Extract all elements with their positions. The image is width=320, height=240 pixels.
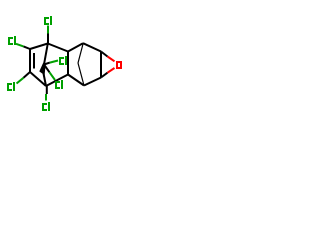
wire C6-O black half — [101, 73, 108, 78]
wire C6-O red half — [108, 68, 115, 73]
wire C9-C5 methano bridge thin — [78, 63, 84, 86]
wire C3-Cl(left-bottom) green half — [17, 78, 24, 84]
wire C1-C8a — [48, 44, 68, 52]
wire C2-Cl(left-top) green half — [16, 44, 24, 47]
wire C10-Cl(mid-top) black half — [44, 63, 50, 65]
wire C8a-C4a — [67, 52, 69, 75]
wire C7-O red half — [108, 57, 115, 62]
wire C10-Cl(mid-bottom) green half — [50, 72, 56, 80]
wire C1-Cl(top) green half — [47, 26, 49, 34]
wire C10-C1 bridge bond — [44, 44, 48, 65]
wire C4-C4a — [46, 75, 68, 87]
wire C6-C7 epoxide edge — [100, 52, 102, 78]
wedge bond C10-C4 — [39, 63, 45, 75]
wire C2-Cl(left-top) black half — [24, 46, 31, 49]
wire C10-C4 bridge bond thin part — [44, 74, 47, 87]
wire C7-O black half — [101, 52, 108, 57]
wire C4a-C5 — [68, 75, 84, 86]
background — [0, 0, 130, 130]
wire C10-Cl(mid-top) green half — [50, 61, 58, 63]
atom label Cl left-top — [8, 36, 16, 45]
wire C8-C7 — [83, 43, 101, 51]
wire C8a-C8 — [68, 43, 83, 51]
atom label O epoxide oxygen — [116, 61, 122, 69]
wire C4-Cl(bottom) black half — [46, 86, 48, 94]
wire C1-C2 — [30, 44, 48, 50]
wire C4-Cl(bottom) green half — [45, 94, 47, 101]
wire C8-C9 methano bridge thin — [78, 44, 83, 63]
wire C2=C3 double bond main line — [29, 49, 31, 72]
wire C10-Cl(mid-bottom) black half — [44, 65, 50, 73]
wire C1-Cl(top) black half — [47, 34, 49, 44]
atom label Cl mid-top — [59, 56, 67, 65]
wire C3-Cl(left-bottom) black half — [24, 72, 31, 78]
wire C3-C4 — [30, 72, 46, 86]
atom label Cl bottom — [42, 102, 50, 111]
wire C2=C3 double bond inner line — [33, 53, 35, 69]
atom label Cl left-bottom — [7, 82, 15, 91]
atom label Cl top — [44, 16, 52, 25]
wire C5-C6 — [84, 78, 101, 86]
atom label Cl mid-bottom — [55, 80, 63, 89]
